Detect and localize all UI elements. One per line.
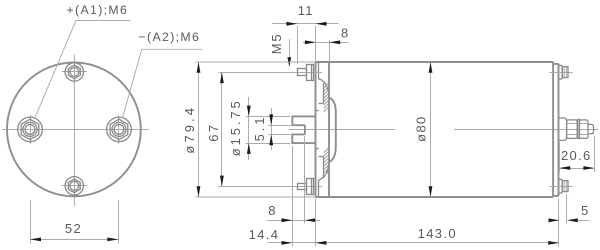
shaft with slot — [292, 116, 315, 143]
svg-text:ø15.75: ø15.75 — [228, 98, 243, 156]
stud bottom-right — [549, 179, 572, 193]
end cap right — [553, 64, 558, 196]
dim 8 bottom — [267, 136, 320, 246]
motor body — [315, 62, 553, 197]
terminal bolt A1 left — [18, 115, 43, 144]
svg-text:5: 5 — [581, 203, 590, 218]
svg-text:5.1: 5.1 — [252, 115, 267, 142]
dim phi79.4 — [182, 62, 315, 197]
svg-text:ø79.4: ø79.4 — [182, 105, 197, 154]
bolt bottom (M5 stud end view) — [62, 177, 88, 195]
side view: shaft center line — [289, 129, 396, 131]
leader -(A2);M6 — [122, 30, 202, 118]
terminal bolt A2 right — [107, 115, 132, 144]
terminal stud right middle — [559, 118, 594, 140]
dim 14.4 and 143.0 baseline — [249, 199, 559, 247]
gasket section bottom (hatched) — [319, 148, 329, 181]
dim 67 — [206, 72, 224, 186]
leader +(A1);M6 — [35, 3, 131, 118]
dim 20.6 — [559, 136, 594, 172]
svg-text:143.0: 143.0 — [418, 226, 457, 241]
svg-text:ø80: ø80 — [413, 115, 428, 141]
svg-text:M5: M5 — [269, 33, 284, 55]
left view: vertical center line — [74, 55, 76, 207]
dim 11 top — [272, 3, 338, 64]
label M5 with leader — [269, 33, 291, 67]
svg-text:8: 8 — [341, 26, 350, 41]
bolt top (M5 stud end view) — [62, 63, 88, 81]
left view: horizontal center line — [2, 129, 149, 131]
dim 8 top — [303, 26, 350, 62]
motor end-face circle — [7, 62, 141, 196]
svg-text:14.4: 14.4 — [249, 227, 280, 242]
gasket section top (hatched) — [319, 79, 329, 112]
stud top-right — [549, 65, 572, 79]
svg-text:8: 8 — [268, 203, 277, 218]
dim 5.1 — [252, 108, 291, 150]
dimension 52 — [30, 200, 119, 244]
svg-text:11: 11 — [298, 3, 314, 18]
dim phi15.75 — [228, 97, 290, 160]
svg-text:20.6: 20.6 — [561, 148, 592, 163]
svg-text:+(A1);M6: +(A1);M6 — [67, 3, 129, 17]
dim phi80 — [413, 62, 432, 197]
svg-text:52: 52 — [65, 221, 82, 236]
svg-text:−(A2);M6: −(A2);M6 — [139, 30, 201, 44]
boot bulge around shaft — [329, 98, 336, 163]
stud top-left (M5) — [219, 64, 323, 80]
svg-text:67: 67 — [206, 123, 221, 142]
dim 5 right — [549, 194, 590, 223]
flange plate — [315, 62, 318, 197]
stud bottom-left (M5) — [219, 178, 323, 194]
